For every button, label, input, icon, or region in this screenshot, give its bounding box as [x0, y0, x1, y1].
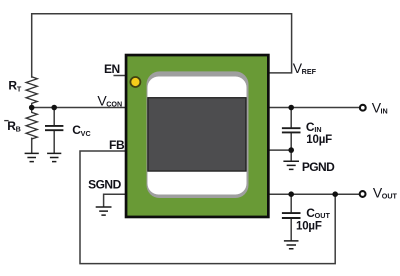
wire top loop VREF	[32, 14, 292, 77]
ground below CVC	[47, 153, 61, 161]
stray tick left of RB	[4, 120, 8, 122]
node CVC tap	[51, 105, 57, 111]
resistor RB	[26, 108, 37, 140]
wire RB lead to ground	[31, 138, 33, 152]
svg-text:10µF: 10µF	[306, 134, 332, 146]
wire COUT leads	[290, 194, 292, 240]
capacitor CVC plates	[45, 126, 63, 130]
node CIN tap	[288, 105, 294, 111]
IC white top face	[148, 77, 247, 195]
wire VCON net	[32, 107, 126, 109]
wire FB feedback loop	[80, 151, 335, 264]
ground SGND	[96, 207, 112, 215]
resistor RT	[26, 77, 37, 108]
ground PGND	[283, 161, 299, 169]
IC dark thermal pad	[148, 98, 246, 171]
terminal VIN circle	[360, 105, 366, 111]
capacitor CIN plates	[282, 128, 301, 132]
svg-text:PGND: PGND	[302, 160, 335, 174]
wire SGND	[104, 194, 126, 206]
wire CVC leads	[53, 108, 55, 153]
IC pin-1 dot	[130, 77, 140, 87]
node FB loop junction	[332, 191, 338, 197]
node RT/RB junction	[29, 105, 35, 111]
IC gray body rim	[147, 71, 249, 198]
wire VOUT net	[268, 193, 359, 195]
node COUT tap	[288, 191, 294, 197]
wire PGND	[268, 150, 291, 160]
ground below COUT	[284, 241, 299, 249]
svg-text:10µF: 10µF	[296, 221, 322, 233]
svg-text:FB: FB	[109, 138, 125, 152]
wire CIN leads	[290, 108, 292, 151]
junction node dots	[29, 105, 338, 197]
ground below RB	[25, 153, 39, 161]
terminal VOUT circle	[360, 191, 366, 197]
svg-text:EN: EN	[104, 62, 120, 76]
wire EN stub	[114, 75, 126, 77]
capacitor COUT plates	[282, 213, 301, 218]
node PGND junction	[288, 147, 294, 153]
IC U1 package body (green)	[126, 55, 268, 217]
wire VIN net	[268, 107, 359, 109]
svg-text:SGND: SGND	[88, 177, 122, 191]
